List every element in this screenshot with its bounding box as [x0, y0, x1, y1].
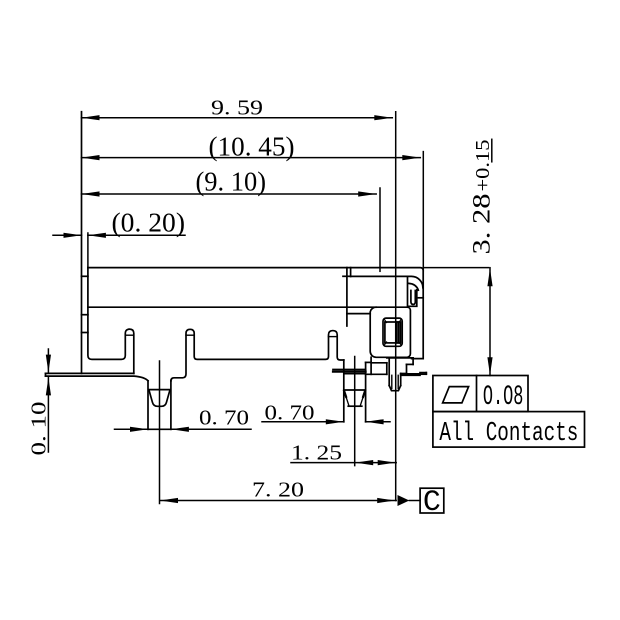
- svg-text:0. 70: 0. 70: [265, 401, 315, 425]
- svg-text:+0.15: +0.15: [472, 140, 494, 192]
- svg-text:(0. 20): (0. 20): [112, 208, 186, 238]
- svg-text:1. 25: 1. 25: [291, 441, 342, 465]
- svg-text:0. 70: 0. 70: [199, 406, 249, 430]
- svg-text:C: C: [423, 486, 441, 520]
- svg-text:9. 59: 9. 59: [211, 96, 263, 120]
- svg-text:O.O8: O.O8: [483, 382, 524, 413]
- svg-text:All Contacts: All Contacts: [439, 419, 578, 449]
- svg-text:3. 28: 3. 28: [469, 194, 496, 255]
- svg-text:(9. 10): (9. 10): [196, 167, 267, 197]
- svg-text:7. 20: 7. 20: [252, 478, 304, 502]
- svg-text:(10. 45): (10. 45): [209, 132, 295, 162]
- svg-text:0. 10: 0. 10: [27, 402, 51, 456]
